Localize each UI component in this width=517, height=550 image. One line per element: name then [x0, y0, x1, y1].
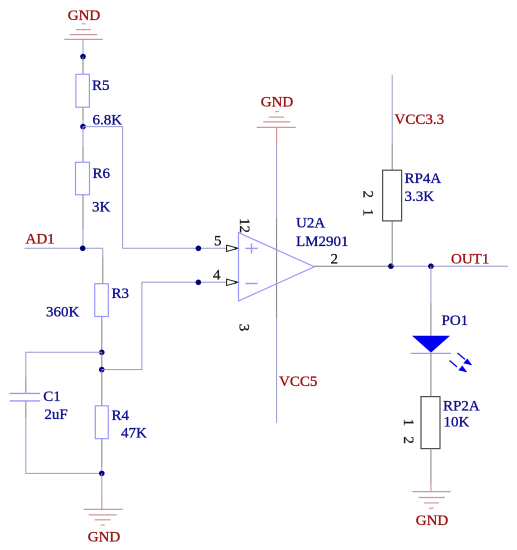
svg-text:2: 2: [360, 190, 376, 198]
ground symbol (top-left, inverted): [64, 24, 103, 40]
svg-text:GND: GND: [88, 530, 121, 546]
svg-text:R3: R3: [112, 286, 130, 302]
ground symbol (bottom-right): [412, 484, 450, 509]
LED light arrow 2: [450, 361, 468, 373]
svg-text:RP2A: RP2A: [443, 399, 480, 415]
svg-text:R5: R5: [92, 78, 110, 94]
junction dot RP4A output: [388, 263, 394, 269]
svg-text:5: 5: [214, 234, 222, 250]
output pin 2 wire: [314, 265, 391, 267]
resistor R4: [95, 370, 108, 467]
LED light arrow 1: [458, 353, 473, 365]
wire to op-amp pin 4 (right and up): [102, 282, 227, 369]
wire R5 to junction: [82, 120, 84, 127]
svg-text:R4: R4: [112, 408, 130, 424]
op-amp plus symbol: [245, 244, 257, 254]
svg-text:2: 2: [331, 252, 339, 268]
resistor RP2A: [421, 397, 440, 484]
junction dot pin4 branch: [99, 367, 105, 373]
junction dot bottom-left ground node: [99, 471, 105, 477]
wire C1 bottom to ground node: [26, 418, 102, 473]
svg-text:LM2901: LM2901: [296, 234, 349, 250]
wire AD1 horizontal: [25, 247, 103, 249]
svg-text:360K: 360K: [46, 305, 80, 321]
junction dot op-amp pin 5 wire: [196, 246, 202, 252]
svg-text:OUT1: OUT1: [451, 252, 489, 268]
op-amp minus symbol: [246, 283, 258, 285]
svg-text:RP4A: RP4A: [405, 171, 442, 187]
wire C1 branch left: [26, 352, 102, 377]
wire OUT1 down to LED: [430, 266, 432, 303]
capacitor C1: [10, 377, 41, 418]
resistor R3: [95, 257, 109, 352]
svg-text:GND: GND: [68, 8, 101, 24]
svg-text:1: 1: [360, 209, 376, 217]
wire GND to R5: [82, 39, 84, 56]
svg-text:47K: 47K: [121, 426, 147, 442]
svg-text:VCC5: VCC5: [279, 374, 317, 390]
svg-text:12: 12: [236, 218, 252, 233]
junction dot LED branch: [428, 263, 434, 269]
wire GND to op-amp pin 12: [276, 145, 278, 218]
junction dot C1 branch: [99, 350, 105, 356]
svg-text:1: 1: [400, 419, 416, 427]
svg-text:3: 3: [235, 324, 251, 332]
wire 6.8K node to op-amp pin 5 (right and down): [83, 127, 227, 249]
svg-text:VCC3.3: VCC3.3: [395, 112, 445, 128]
wire down to bottom-left ground: [101, 473, 103, 491]
svg-text:2: 2: [400, 436, 416, 444]
svg-text:GND: GND: [261, 95, 294, 111]
pin 4 input arrow: [227, 279, 239, 285]
resistor RP4A: [383, 143, 402, 266]
wire R4 to ground junction: [101, 467, 103, 473]
junction dot op-amp pin 4 wire: [196, 280, 202, 286]
wire VCC3.3: [391, 75, 393, 143]
svg-text:3.3K: 3.3K: [405, 189, 435, 205]
wire between junctions: [101, 352, 103, 369]
svg-text:C1: C1: [43, 389, 61, 405]
svg-text:PO1: PO1: [442, 313, 469, 329]
svg-text:U2A: U2A: [296, 216, 325, 232]
resistor R5: [76, 57, 90, 120]
junction dot below top GND: [80, 54, 86, 60]
svg-text:3K: 3K: [92, 200, 111, 216]
junction dot AD1 node: [80, 246, 86, 252]
svg-text:2uF: 2uF: [44, 407, 67, 423]
ground symbol (bottom-left): [84, 491, 123, 525]
op-amp U2A triangle: [239, 233, 315, 301]
wire OUT1: [391, 265, 508, 267]
svg-text:4: 4: [213, 268, 221, 284]
svg-text:10K: 10K: [444, 415, 470, 431]
wire AD1 down to R3: [102, 248, 104, 257]
svg-text:AD1: AD1: [26, 232, 55, 248]
junction dot 6.8K node: [80, 124, 86, 130]
pin 5 input arrow: [227, 245, 239, 251]
op-amp supply pins line through body: [276, 218, 278, 318]
svg-text:R6: R6: [93, 166, 111, 182]
wire op-amp pin 3 to VCC5: [276, 318, 278, 423]
ground symbol (above op-amp, inverted): [257, 112, 296, 146]
svg-text:GND: GND: [416, 513, 449, 529]
resistor R6: [76, 127, 90, 249]
LED PO1: [411, 303, 451, 397]
